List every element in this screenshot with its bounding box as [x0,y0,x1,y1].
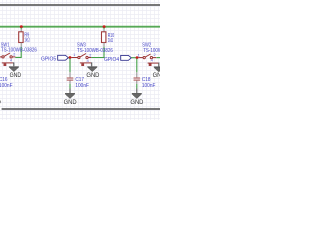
junction on rail at R9 [20,25,23,28]
wire tag to junction [131,57,136,59]
pin R9 bottom [20,43,22,47]
pin C17 bottom [69,81,71,84]
wire C18 to GND [136,84,138,89]
junction on rail at R10 [103,25,106,28]
svg-text:TS-100WB-03826: TS-100WB-03826 [1,48,37,54]
switch SW3 [71,54,91,67]
pin C18 bottom [136,81,138,84]
capacitor C17 [67,78,74,80]
wire SW3 to GND [90,63,93,67]
net tag GPIO5 [58,55,69,60]
svg-text:2: 2 [13,53,15,57]
svg-text:1kΩ: 1kΩ [24,38,29,44]
ground SW3 [86,67,100,79]
svg-text:GND: GND [130,99,144,106]
ground SW2 [153,67,167,79]
svg-text:100nF: 100nF [75,83,89,89]
svg-text:TS-100WB-03826: TS-100WB-03826 [143,48,160,54]
wire SW2 pin2 to edge [156,57,160,59]
svg-text:GND: GND [10,72,22,79]
wire R9 to SW1 [15,47,21,58]
capacitor C18 [134,78,141,80]
wire top bus segment [0,4,160,6]
wire SW1 to GND [12,63,15,66]
svg-text:4: 4 [10,59,12,63]
switch SW2 [138,54,158,66]
svg-text:4: 4 [87,59,89,63]
net tag GPIO4 [121,55,132,60]
wire junction to C18 [136,59,138,73]
svg-text:1: 1 [138,53,140,57]
svg-text:100nF: 100nF [142,83,156,89]
wire rail to R10 [103,28,105,30]
svg-text:GND: GND [86,72,100,79]
node GPIO4 junction [136,56,139,59]
svg-text:GND: GND [64,99,78,106]
svg-text:2: 2 [154,53,156,57]
pin C18 top [136,72,138,77]
svg-text:GPIO4: GPIO4 [104,57,119,63]
svg-text:GND: GND [153,72,160,79]
ground C18 [130,94,144,106]
wire junction to C17 [69,59,71,73]
switch SW1 [0,53,15,66]
wire C17 to GND [69,84,71,89]
wire bottom bus segment [2,108,160,110]
wire tag to junction [68,57,70,59]
wire SW2 to GND [157,63,159,67]
resistor R10 [102,32,106,43]
svg-text:1kΩ: 1kΩ [108,38,113,44]
svg-text:4: 4 [151,59,153,63]
svg-text:TS-100WB-03826: TS-100WB-03826 [77,48,113,54]
svg-text:1: 1 [73,53,75,57]
wire R10 to SW3 [91,47,104,58]
wire 3V3 rail [0,26,160,28]
resistor R9 [19,32,23,43]
ground SW1 [9,67,22,79]
pin R10 bottom [103,43,105,47]
pin GND symbol C17 [69,89,71,94]
pin R10 top [103,29,105,32]
svg-text:GPIO5: GPIO5 [41,57,56,63]
svg-text:100nF: 100nF [0,83,13,89]
pin C17 top [69,72,71,77]
wire rail to R9 [20,28,22,30]
pin R9 top [20,29,22,32]
node GPIO5 junction [69,56,72,59]
background [0,0,160,120]
grid [0,0,160,120]
ground C17 [64,94,78,106]
svg-text:2: 2 [89,53,91,57]
pin GND symbol C18 [136,89,138,94]
